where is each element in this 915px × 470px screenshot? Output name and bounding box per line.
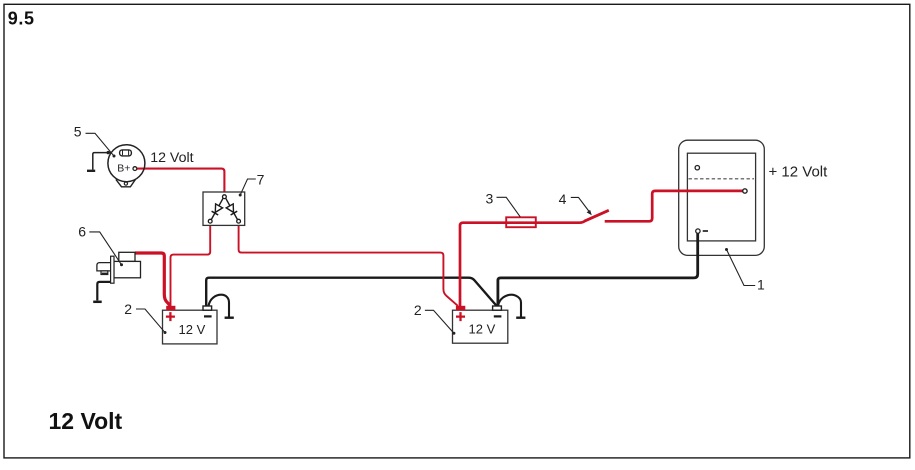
panel U1 (device 1) outer body [679, 140, 765, 255]
svg-text:5: 5 [74, 124, 82, 140]
wire: red heavy starter cable to battery1 plus [135, 253, 170, 306]
label 1 leader [727, 250, 756, 286]
svg-text:6: 6 [78, 223, 86, 239]
label 2 right leader [425, 310, 454, 333]
alternator top slot [120, 150, 132, 156]
wire: red isolator right output to battery2 plus [239, 223, 458, 306]
starter M1 (6) nose [97, 263, 111, 271]
diode V2 cathode bar [231, 211, 238, 215]
isolator input terminal [223, 195, 227, 199]
battery B2 plus terminal [456, 306, 465, 311]
starter ground bar [93, 301, 102, 304]
wire: black battery1 ground pigtail [209, 295, 230, 317]
label 7 dot [239, 194, 242, 197]
battery B2 minus sign [494, 315, 502, 317]
battery B1 minus terminal [203, 306, 212, 310]
diode V1 triangle [215, 204, 222, 213]
label 1 dot [725, 248, 728, 251]
battery B1 minus sign [204, 315, 212, 317]
panel minus sign [703, 230, 708, 232]
ground bar battery2 [516, 317, 525, 319]
label 4 arrowhead [587, 210, 592, 215]
svg-text:12 V: 12 V [469, 322, 496, 337]
label 3 leader [497, 197, 521, 217]
svg-text:12 Volt: 12 Volt [49, 408, 123, 434]
svg-text:2: 2 [124, 301, 132, 317]
alternator G1 (5) body [108, 145, 145, 182]
isolator output terminal left [208, 219, 212, 223]
svg-text:9.5: 9.5 [8, 9, 35, 29]
svg-text:7: 7 [257, 172, 265, 188]
starter ground wire [97, 282, 110, 301]
diode V2 triangle [226, 204, 233, 213]
isolator output terminal right [237, 219, 241, 223]
battery B2 plus sign [456, 312, 465, 321]
wire: black battery2 minus to panel minus [498, 233, 698, 306]
fuse F1 (3) [506, 217, 536, 227]
svg-text:4: 4 [559, 191, 567, 207]
label 5 leader [86, 133, 114, 156]
wire: red battery2 plus to fuse and switch [460, 220, 586, 306]
alternator B+ terminal [133, 167, 137, 171]
wire: red alternator B+ to isolator top [137, 169, 225, 195]
starter solenoid [119, 252, 135, 261]
starter body [114, 261, 141, 277]
alternator slot tick left [122, 151, 124, 156]
panel red terminal [743, 189, 747, 193]
svg-text:3: 3 [486, 191, 494, 207]
svg-text:12 Volt: 12 Volt [150, 150, 193, 166]
label 6 dot [120, 263, 123, 266]
panel indicator hole [695, 166, 699, 170]
label 6 leader [89, 232, 121, 265]
battery B2 (2) box [453, 310, 508, 343]
label 5 dot [113, 155, 116, 158]
switch S1 blade [585, 210, 609, 221]
svg-text:B+: B+ [117, 162, 130, 174]
label 2 right dot [452, 332, 455, 335]
battery B1 (2) box [163, 310, 218, 344]
label 2 left dot [164, 331, 167, 334]
alternator tab hole [124, 182, 127, 185]
starter flange [111, 256, 114, 283]
svg-text:1: 1 [757, 277, 765, 293]
alternator mounting tab [116, 179, 136, 186]
label 2 left leader [136, 309, 165, 332]
wire: red isolator left output to battery1 plus [171, 223, 211, 306]
alternator slot tick right [128, 151, 130, 156]
panel dashed separator [689, 178, 755, 180]
wire: black battery2 ground pigtail [498, 295, 521, 317]
wire: red switch to panel plus terminal [605, 191, 743, 221]
isolator (7) box [203, 192, 245, 225]
label 7 leader [240, 179, 256, 195]
battery B1 plus terminal [166, 306, 175, 311]
starter pinion small block [101, 271, 108, 275]
diode V1 left line [211, 198, 223, 219]
wire: black battery1 minus to battery2 minus [206, 278, 496, 306]
label 4 leader [571, 197, 590, 212]
diode V2 right line [226, 198, 238, 219]
svg-text:2: 2 [414, 302, 422, 318]
panel U1 inner face [687, 153, 755, 241]
battery B1 plus sign [166, 312, 175, 321]
diode V1 cathode bar [212, 211, 219, 215]
svg-text:+ 12 Volt: + 12 Volt [769, 163, 829, 180]
svg-text:12 V: 12 V [179, 322, 206, 337]
starter pinion dark band [102, 273, 108, 275]
battery B2 minus terminal [493, 306, 502, 310]
ground bar battery1 [225, 317, 234, 319]
alternator ground bar [87, 170, 95, 172]
panel minus terminal [696, 229, 700, 233]
junction dot alternator ground [107, 151, 110, 154]
alternator ground arm [93, 153, 112, 170]
